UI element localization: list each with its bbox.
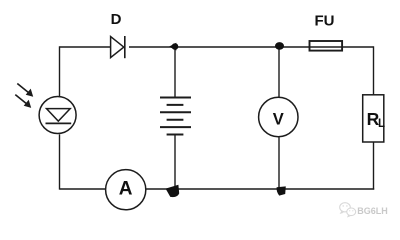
wire: battery positive lead (top junction to battery) (174, 47, 176, 98)
wire: right vertical lower (RL bottom to bottom rail) (373, 142, 375, 190)
junction node: top rail / battery tap (arrow-style blob) (169, 43, 178, 51)
fuse FU (310, 41, 343, 51)
load resistor RL (363, 95, 385, 142)
wire: voltmeter bottom lead (278, 137, 280, 189)
diode D (111, 36, 125, 58)
wire: bottom rail right (ammeter to right corner) (146, 188, 374, 190)
watermark: WeChat icon (340, 203, 356, 217)
solar cell / photodiode PV (39, 97, 76, 134)
wire: top rail from diode cathode through fuse area (129, 46, 342, 48)
wire: battery negative lead (battery to bottom junction) (174, 135, 176, 190)
svg-text:FU: FU (315, 13, 335, 30)
svg-text:BG6LH: BG6LH (357, 206, 388, 216)
watermark: WeChat icon eyes (343, 205, 354, 211)
wire: right vertical upper (corner to RL top) (373, 46, 375, 95)
junction node: top rail / voltmeter tap (dot) (275, 42, 284, 50)
svg-text:D: D (111, 11, 122, 28)
ammeter A (106, 170, 146, 210)
voltmeter V (259, 97, 298, 136)
junction node: bottom rail / voltmeter return (blob) (277, 186, 286, 195)
light arrow 1 (upper incident-light arrow) (17, 84, 33, 97)
svg-text:L: L (378, 118, 385, 130)
wire: voltmeter top lead (278, 47, 280, 97)
light arrow 2 (lower incident-light arrow) (15, 95, 31, 108)
junction node: bottom rail / battery return (left-pointing arrow blob) (166, 185, 180, 197)
wire: top-right segment to right corner (342, 46, 374, 48)
wire: top-left horizontal (solar cell to diode anode) (60, 46, 111, 48)
svg-text:A: A (119, 179, 133, 200)
wire: left vertical upper (corner down to solar cell top) (59, 46, 61, 97)
wire: left vertical lower (solar cell bottom to bottom rail) (59, 134, 61, 189)
wire: bottom rail left (corner to ammeter) (60, 188, 106, 190)
battery GB (three cells) (160, 98, 191, 135)
svg-text:V: V (273, 111, 284, 129)
